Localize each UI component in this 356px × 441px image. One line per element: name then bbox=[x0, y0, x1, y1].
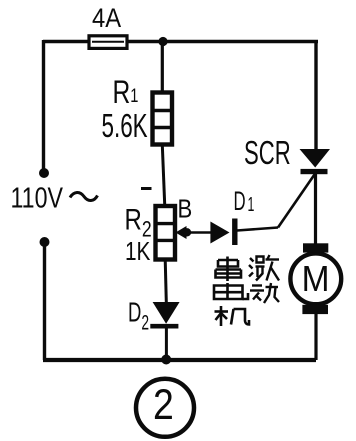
wire motor to bottom bbox=[314, 314, 317, 360]
diode D2 bbox=[150, 302, 179, 326]
svg-text:2: 2 bbox=[153, 381, 174, 429]
potentiometer R2 body bbox=[156, 206, 176, 260]
wire middle branch upper (junction to R1) bbox=[161, 41, 164, 93]
motor brush terminal bottom bbox=[302, 305, 328, 314]
label R1 bbox=[113, 75, 139, 111]
wire SCR cathode to motor bbox=[314, 174, 317, 244]
wire left vertical upper bbox=[42, 40, 45, 171]
wire D1 to gate bbox=[237, 228, 278, 231]
wire D2 to bottom bbox=[165, 327, 168, 359]
label 5.6K bbox=[102, 107, 148, 144]
label 4A bbox=[92, 4, 121, 34]
diode D1 bbox=[210, 219, 234, 246]
wire R1 to R2 bbox=[162, 145, 165, 207]
wiper arrow of R2 bbox=[176, 226, 212, 239]
AC source terminal lower bbox=[40, 237, 50, 247]
svg-text:1K: 1K bbox=[125, 237, 151, 266]
node junction on wiper wire bbox=[183, 228, 191, 236]
figure number circle 2 bbox=[136, 379, 194, 437]
svg-text:4A: 4A bbox=[92, 4, 121, 34]
label Chinese 电 (dian) bbox=[214, 283, 248, 299]
resistor R1 body bbox=[153, 93, 173, 145]
node junction top (fuse to R1 branch) bbox=[158, 37, 167, 46]
SCR thyristor bbox=[300, 149, 331, 174]
svg-text:M: M bbox=[302, 260, 330, 299]
wire bottom horizontal bbox=[43, 358, 316, 362]
wire SCR gate diagonal bbox=[278, 175, 315, 228]
svg-text:110V: 110V bbox=[11, 181, 64, 214]
svg-text:SCR: SCR bbox=[244, 135, 291, 171]
label 1K bbox=[125, 237, 151, 266]
label Chinese 机 (ji) bbox=[215, 306, 250, 326]
label D1 bbox=[234, 186, 255, 216]
wire top horizontal bbox=[43, 40, 318, 44]
label Chinese 串 (chuan) bbox=[216, 257, 242, 282]
motor M circle bbox=[290, 253, 341, 304]
wire R2 to D2 bbox=[165, 259, 166, 302]
label D2 bbox=[128, 298, 149, 334]
label 110V~ bbox=[11, 181, 98, 214]
wire right vertical upper (to SCR anode) bbox=[314, 41, 317, 151]
label node B bbox=[178, 195, 193, 224]
label SCR bbox=[244, 135, 291, 171]
AC source terminal upper bbox=[39, 168, 49, 178]
minus tick above R2 bbox=[141, 187, 152, 190]
label M inside motor bbox=[302, 260, 330, 299]
svg-text:5.6K: 5.6K bbox=[102, 107, 148, 144]
wire left vertical lower bbox=[43, 242, 46, 360]
label Chinese 动 (dong) bbox=[250, 283, 279, 303]
fuse 4A bbox=[89, 36, 127, 49]
svg-text:B: B bbox=[178, 195, 193, 224]
label Chinese 激 (ji) bbox=[249, 255, 279, 281]
node junction bottom (D2 to bottom wire) bbox=[161, 355, 171, 365]
motor brush terminal top bbox=[303, 243, 328, 252]
label R2 bbox=[125, 202, 152, 242]
